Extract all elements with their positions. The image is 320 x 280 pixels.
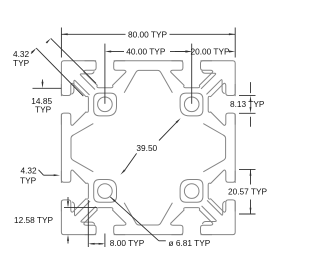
T-slot cavity bottom-left — [114, 223, 126, 234]
core island top-left — [94, 93, 117, 116]
face channel notch bottom — [124, 203, 172, 225]
dimension 80.00 TYP — [60, 28, 62, 58]
dimension diameter 6.81 TYP — [110, 197, 115, 202]
bore circle bottom-left — [98, 184, 113, 199]
core island bottom-left — [94, 180, 117, 203]
svg-text:12.58 TYP: 12.58 TYP — [14, 215, 54, 225]
svg-text:39.50: 39.50 — [136, 143, 157, 153]
svg-text:20.00 TYP: 20.00 TYP — [191, 47, 231, 57]
corner cavity bottom-right — [202, 206, 217, 224]
svg-text:ø 6.81 TYP: ø 6.81 TYP — [169, 238, 211, 248]
face channel notch left — [71, 124, 93, 172]
corner cavity top-right — [207, 80, 225, 95]
svg-text:TYP: TYP — [13, 58, 30, 68]
T-slot cavity right-top — [224, 83, 235, 95]
T-slot cavity right-bottom — [224, 170, 235, 182]
core island bottom-right — [180, 180, 203, 203]
svg-text:40.00 TYP: 40.00 TYP — [126, 47, 166, 57]
dimension 8.13 TYP — [239, 94, 256, 96]
svg-text:20.57 TYP: 20.57 TYP — [228, 187, 268, 197]
svg-text:80.00 TYP: 80.00 TYP — [128, 29, 168, 39]
T-slot cavity left-bottom — [61, 200, 72, 212]
face channel notch top — [124, 70, 172, 92]
dimension 12.58 TYP — [64, 207, 97, 209]
T-slot cavity bottom-right — [201, 223, 213, 234]
dimension 8.00 TYP — [87, 200, 89, 247]
corner cavity top-left — [80, 71, 95, 89]
core island top-right — [180, 93, 203, 116]
profile outer outline — [61, 61, 235, 235]
svg-text:8.00 TYP: 8.00 TYP — [110, 238, 145, 248]
bore circle top-left — [98, 97, 113, 112]
face channel notch right — [203, 124, 225, 172]
dimension 40.00 TYP — [104, 44, 106, 104]
svg-text:TYP: TYP — [20, 176, 37, 186]
T-slot cavity top-left — [84, 61, 96, 72]
dimension 20.57 TYP — [239, 168, 256, 170]
svg-text:4.32: 4.32 — [21, 166, 38, 176]
T-slot cavity left-top — [61, 113, 72, 125]
bore circle bottom-right — [184, 184, 199, 199]
T-slot cavity top-right — [171, 61, 183, 72]
corner cavity bottom-left — [72, 201, 90, 216]
svg-text:8.13 TYP: 8.13 TYP — [230, 99, 265, 109]
dimension 14.85 TYP — [33, 87, 62, 89]
svg-text:TYP: TYP — [35, 104, 52, 114]
bore circle top-right — [184, 97, 199, 112]
